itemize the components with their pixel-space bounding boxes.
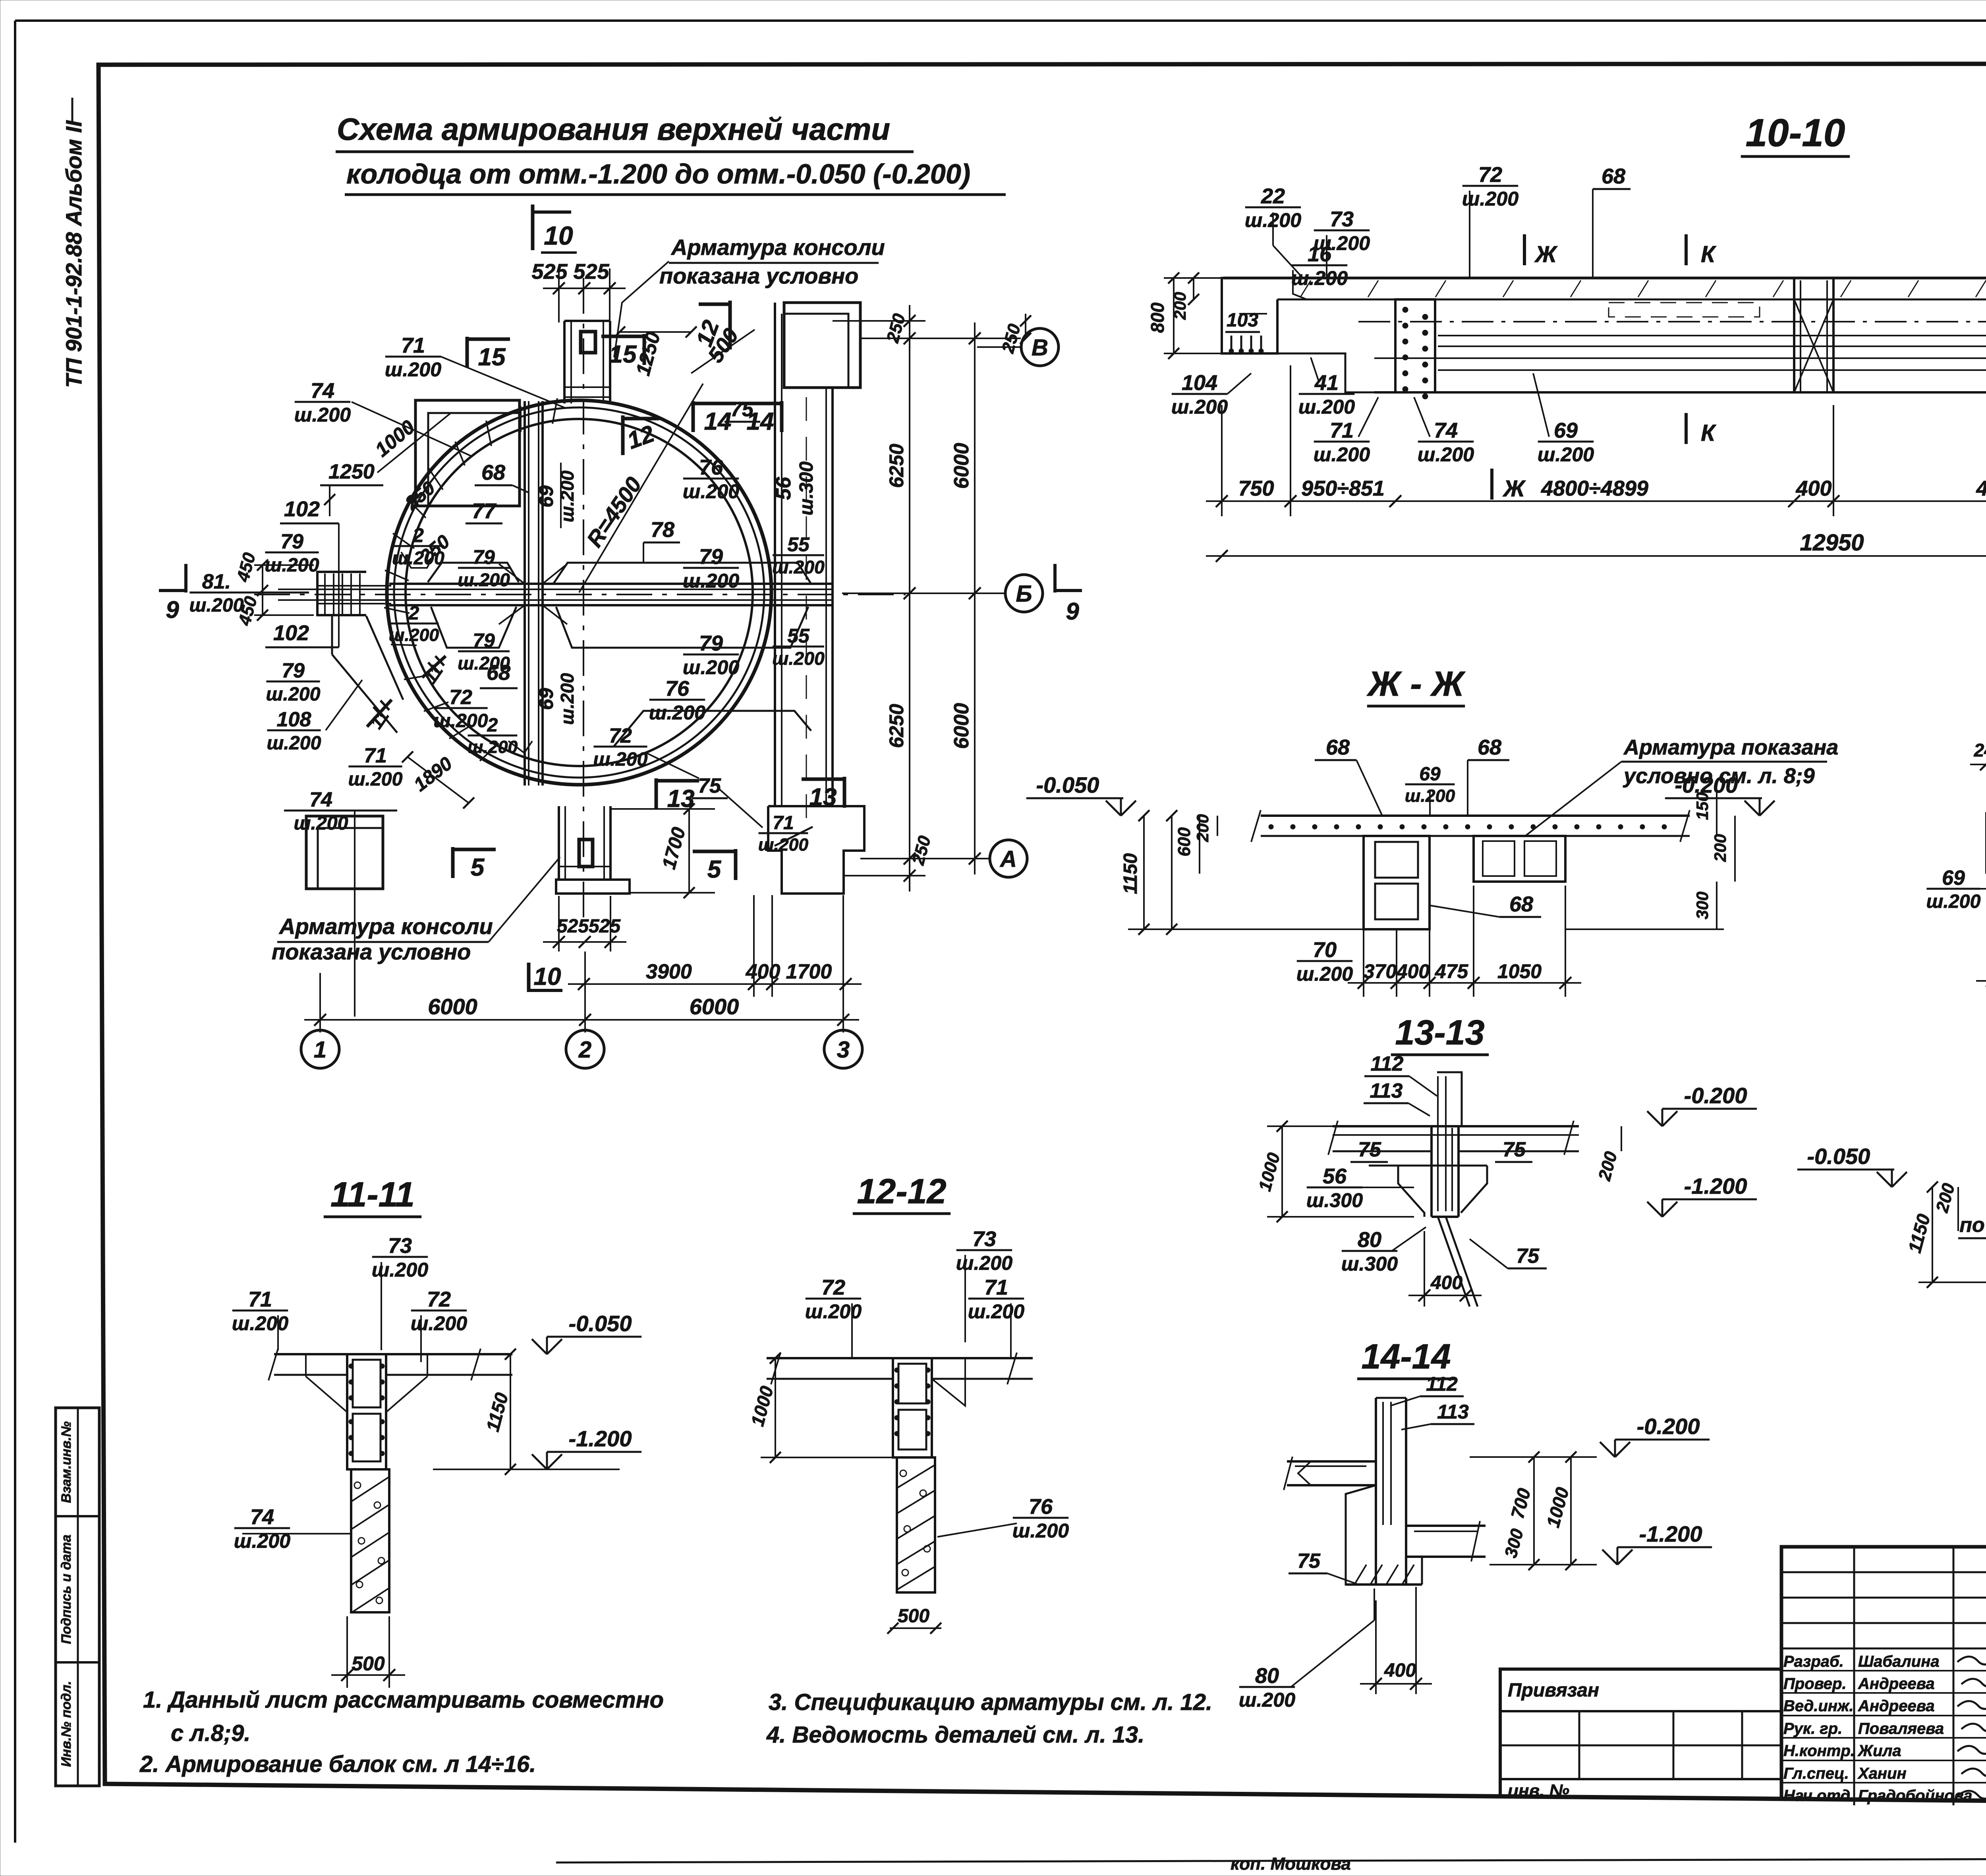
- svg-text:74: 74: [1434, 419, 1458, 442]
- svg-text:ш.300: ш.300: [796, 461, 817, 515]
- svg-text:108: 108: [277, 708, 311, 731]
- dim 1700 rot: [688, 809, 690, 893]
- label 71 ш.200: [968, 1276, 1024, 1323]
- axis circle 3: [824, 1030, 862, 1068]
- plan: bottom console insert: [579, 840, 593, 867]
- label 41 ш.200: [1298, 371, 1355, 418]
- 11-11 dim 500: [331, 1652, 405, 1681]
- svg-text:Андреева: Андреева: [1858, 1675, 1935, 1693]
- svg-text:6250: 6250: [885, 444, 908, 488]
- svg-text:ш.200: ш.200: [593, 749, 647, 770]
- flag К top: [1685, 234, 1688, 265]
- 11-11 pier below: [351, 1469, 389, 1612]
- svg-text:55: 55: [787, 625, 810, 647]
- svg-text:показана условно: показана условно: [659, 263, 858, 288]
- svg-text:ш.200: ш.200: [458, 569, 510, 590]
- label 81. ш.200: [189, 570, 243, 616]
- svg-text:-1.200: -1.200: [1684, 1173, 1747, 1199]
- label 104 ш.200: [1171, 371, 1228, 418]
- label 74 ш.200: [1418, 419, 1474, 466]
- 10-10 beam bottom: [1374, 391, 1986, 394]
- svg-text:75: 75: [1358, 1138, 1381, 1161]
- plan: radius R=4500: [579, 384, 703, 593]
- svg-text:71: 71: [401, 334, 425, 357]
- flag 14T: [739, 401, 782, 435]
- flag 10 top: [531, 205, 535, 250]
- svg-text:ш.200: ш.200: [1538, 444, 1594, 466]
- svg-text:Арматура консоли: Арматура консоли: [670, 235, 885, 260]
- svg-text:77: 77: [472, 499, 497, 523]
- flag 13T: [802, 777, 844, 811]
- label 16 ш.200: [1291, 242, 1348, 290]
- svg-text:400: 400: [1430, 1272, 1462, 1293]
- 13-13 level -1.200: [1647, 1173, 1757, 1217]
- svg-text:Б: Б: [1016, 581, 1032, 607]
- svg-text:ш.200: ш.200: [468, 737, 518, 757]
- 11-11 dim 1150: [510, 1354, 511, 1469]
- 14-14 vertical member: [1375, 1398, 1377, 1585]
- svg-text:Арматура консоли: Арматура консоли: [278, 914, 493, 939]
- svg-text:-1.200: -1.200: [569, 1426, 632, 1451]
- svg-text:ш.200: ш.200: [458, 653, 510, 674]
- svg-text:475: 475: [1435, 960, 1469, 982]
- svg-text:ш.200: ш.200: [294, 404, 351, 426]
- label 69 ш.200: [1405, 764, 1455, 806]
- svg-text:Андреева: Андреева: [1858, 1697, 1935, 1715]
- svg-text:6000: 6000: [950, 703, 973, 749]
- svg-text:69: 69: [535, 485, 557, 508]
- svg-text:12-12: 12-12: [857, 1172, 946, 1211]
- svg-text:Привязан: Привязан: [1508, 1680, 1599, 1701]
- label 72 ш.200: [433, 686, 488, 731]
- svg-text:68: 68: [1326, 735, 1350, 759]
- svg-text:75: 75: [1503, 1138, 1526, 1161]
- svg-text:Ж: Ж: [1502, 476, 1526, 502]
- svg-text:71: 71: [248, 1287, 272, 1311]
- label 69 ш.200: [1926, 867, 1980, 912]
- svg-text:4800÷4899: 4800÷4899: [1541, 477, 1648, 500]
- 10-10 left end block: [1222, 278, 1277, 353]
- svg-text:колодца от отм.-1.200 до о: колодца от отм.-1.200 до отм.-0.050 (-0.…: [346, 158, 970, 189]
- plan right dim chain inner: [885, 305, 916, 892]
- svg-text:71: 71: [773, 813, 794, 834]
- svg-text:9: 9: [166, 596, 179, 623]
- svg-text:79: 79: [699, 545, 723, 569]
- svg-text:74: 74: [250, 1505, 274, 1529]
- svg-text:Шабалина: Шабалина: [1858, 1653, 1940, 1670]
- label 79 ш.200: [265, 530, 319, 576]
- plan: axis 2 vertical dash-dot: [583, 278, 584, 925]
- svg-text:Рук. гр.: Рук. гр.: [1783, 1720, 1842, 1737]
- svg-text:5: 5: [707, 856, 722, 883]
- svg-text:525: 525: [557, 916, 589, 937]
- svg-text:ш.200: ш.200: [772, 557, 825, 577]
- svg-text:ш.200: ш.200: [683, 481, 739, 503]
- svg-text:3: 3: [837, 1037, 850, 1063]
- svg-text:800: 800: [1147, 302, 1168, 333]
- 10-10 column left: [1395, 299, 1435, 392]
- svg-text:ш.200: ш.200: [348, 768, 402, 790]
- svg-text:4800÷4899: 4800÷4899: [1976, 477, 1986, 500]
- svg-text:1150: 1150: [1120, 853, 1141, 894]
- svg-text:76: 76: [1029, 1495, 1053, 1519]
- paper edge bottom: [556, 1858, 1986, 1862]
- 12-12 pier below: [897, 1457, 935, 1592]
- svg-text:80: 80: [1255, 1664, 1279, 1688]
- axis circle V: [1021, 328, 1059, 366]
- 12-12 haunch right: [932, 1358, 965, 1406]
- svg-text:69: 69: [1554, 419, 1578, 442]
- svg-text:А: А: [999, 846, 1017, 872]
- 11-11 level -1.200: [532, 1426, 641, 1469]
- svg-text:-1.200: -1.200: [1639, 1521, 1702, 1546]
- svg-text:Схема армирования верхней ч: Схема армирования верхней части: [337, 112, 890, 147]
- svg-text:ш.200: ш.200: [385, 359, 441, 381]
- 11-11 slab lines: [274, 1353, 512, 1355]
- svg-text:75: 75: [698, 774, 721, 797]
- 10-10 slab soffit: [1277, 299, 1986, 301]
- plan: wall inner face circle: [406, 419, 753, 766]
- 11-11 haunches: [306, 1376, 347, 1412]
- svg-text:1. Данный лист рассматривать: 1. Данный лист рассматривать совместно: [143, 1687, 664, 1713]
- label 71 ш.200: [758, 813, 809, 855]
- section 12-12 title: [853, 1172, 950, 1214]
- flag 10 bottom: [527, 963, 531, 992]
- svg-text:ш.200: ш.200: [1462, 188, 1518, 210]
- 15-15 level -0.050: [1797, 1144, 1907, 1187]
- flag 12T rot: [728, 301, 732, 349]
- svg-text:инв. №: инв. №: [1508, 1781, 1569, 1801]
- svg-text:6000: 6000: [690, 994, 739, 1019]
- svg-text:102: 102: [273, 621, 309, 645]
- label 80 ш.300: [1341, 1228, 1398, 1275]
- label 108 ш.200: [267, 708, 321, 754]
- plan: bottom-left corner pad: [306, 816, 383, 889]
- svg-text:73: 73: [388, 1234, 412, 1258]
- svg-text:ш.200: ш.200: [557, 673, 578, 725]
- svg-text:79: 79: [699, 631, 723, 655]
- 13-13 dim 1000: [1281, 1126, 1283, 1217]
- svg-text:ш.200: ш.200: [1298, 396, 1355, 418]
- svg-text:2: 2: [487, 715, 498, 736]
- label 73 ш.200: [956, 1227, 1012, 1274]
- svg-text:113: 113: [1370, 1079, 1403, 1102]
- label 72 ш.200: [411, 1287, 467, 1335]
- svg-text:950÷851: 950÷851: [1301, 477, 1385, 500]
- svg-text:2: 2: [578, 1037, 591, 1063]
- 12-12 dim 1000: [775, 1358, 776, 1457]
- section 11-11 title: [324, 1175, 421, 1217]
- svg-text:ш.200: ш.200: [683, 656, 739, 679]
- svg-text:78: 78: [651, 518, 674, 542]
- ЖЖ level -0.200: [1665, 772, 1775, 816]
- flag К bottom-left: [1685, 413, 1688, 444]
- ЖЖ central rib: [1364, 836, 1430, 929]
- ЖЖ right lower beam: [1474, 836, 1565, 882]
- section Ж-Ж title: [1366, 664, 1466, 706]
- plan: bottom console cap: [556, 880, 630, 894]
- svg-text:ш.200: ш.200: [1296, 963, 1353, 985]
- svg-text:69: 69: [1419, 764, 1441, 785]
- plan: axis B horizontal dash-dot: [254, 594, 906, 595]
- svg-text:ш.200: ш.200: [1926, 891, 1980, 912]
- label 70 ш.200: [1296, 938, 1353, 985]
- axis circle 1: [301, 1030, 339, 1068]
- svg-text:ш.200: ш.200: [649, 702, 705, 724]
- svg-text:55: 55: [787, 533, 810, 556]
- label 22 ш.200: [1245, 184, 1301, 232]
- svg-text:79: 79: [473, 546, 495, 568]
- title block outer: [1781, 1547, 1986, 1805]
- svg-text:коп. Мошкова: коп. Мошкова: [1231, 1854, 1351, 1874]
- svg-text:ш.200: ш.200: [389, 625, 439, 645]
- flag 9 right: [1053, 564, 1057, 593]
- label 74 sh200 top-left: [294, 379, 351, 426]
- svg-text:1250: 1250: [328, 460, 375, 483]
- svg-text:600: 600: [1175, 827, 1194, 857]
- svg-text:80: 80: [1358, 1228, 1381, 1252]
- КК bottom dims: [1976, 957, 1986, 987]
- svg-text:ш.200: ш.200: [772, 648, 825, 669]
- leader: [441, 357, 566, 408]
- svg-text:ш.200: ш.200: [1012, 1520, 1069, 1542]
- label 2 ш.200: [392, 524, 444, 568]
- svg-text:2: 2: [408, 603, 419, 624]
- margin cells: [56, 1408, 99, 1786]
- svg-text:73: 73: [972, 1227, 996, 1251]
- label 74 ш.200: [294, 788, 348, 834]
- flag T11 a: [422, 656, 446, 677]
- 14-14 block below: [1346, 1485, 1376, 1585]
- svg-text:ш.200: ш.200: [294, 813, 348, 834]
- plan: wall outer inner line: [394, 407, 764, 778]
- svg-text:81.: 81.: [202, 570, 231, 593]
- svg-text:ш.200: ш.200: [392, 548, 444, 568]
- svg-text:41: 41: [1314, 371, 1339, 395]
- svg-text:75: 75: [1516, 1245, 1540, 1268]
- svg-text:500: 500: [898, 1606, 929, 1627]
- svg-text:245: 245: [1974, 740, 1986, 760]
- svg-text:ш.200: ш.200: [1291, 267, 1348, 290]
- label 79 ш.200: [458, 629, 510, 674]
- svg-text:Вед.инж.: Вед.инж.: [1783, 1697, 1854, 1715]
- svg-text:ТП 901-1-92.88 Альбом II: ТП 901-1-92.88 Альбом II: [61, 120, 86, 388]
- svg-text:3. Спецификацию арматуры см.: 3. Спецификацию арматуры см. л. 12.: [769, 1689, 1212, 1715]
- svg-text:ш.200: ш.200: [1239, 1689, 1295, 1711]
- label 73 ш.200: [1314, 207, 1370, 255]
- svg-text:11-11: 11-11: [330, 1175, 415, 1214]
- 15-15 left dims: [1932, 1187, 1933, 1282]
- svg-text:72: 72: [449, 686, 472, 709]
- svg-text:112: 112: [1426, 1373, 1458, 1395]
- 13-13 slab: [1333, 1125, 1579, 1127]
- svg-text:103: 103: [1227, 310, 1258, 331]
- svg-text:-0.200: -0.200: [1684, 1083, 1747, 1108]
- plan: zone 76 upper-right: [667, 467, 798, 492]
- ЖЖ left dims: [1143, 816, 1145, 929]
- plan: zone 79 lower-left trapezoid: [431, 607, 516, 648]
- svg-text:400: 400: [746, 960, 780, 983]
- svg-text:ш.200: ш.200: [232, 1312, 288, 1335]
- plan: wall outer circle: [387, 400, 771, 785]
- plan: top-right corner pad: [784, 303, 860, 388]
- svg-text:102: 102: [284, 497, 320, 521]
- 13-13 level -0.200: [1647, 1083, 1757, 1126]
- plan bottom dim chain 6000 6000: [304, 994, 859, 1026]
- svg-text:79: 79: [282, 659, 305, 682]
- 13-13 trapezoid below: [1398, 1166, 1424, 1217]
- svg-text:-0.200: -0.200: [1637, 1414, 1700, 1439]
- svg-text:4. Ведомость деталей см. л.: 4. Ведомость деталей см. л. 13.: [766, 1722, 1144, 1748]
- svg-text:Провер.: Провер.: [1783, 1675, 1847, 1693]
- svg-text:Инв.№ подл.: Инв.№ подл.: [59, 1681, 74, 1767]
- paper edge left: [14, 21, 16, 1843]
- svg-text:15: 15: [609, 341, 637, 368]
- plan bottom dim chain 3900/400/1700: [568, 960, 862, 990]
- svg-text:56: 56: [772, 477, 795, 500]
- svg-text:74: 74: [309, 788, 332, 811]
- svg-text:68: 68: [1602, 164, 1625, 188]
- label 76 ш.200: [649, 677, 705, 724]
- 14-14 right dims 700 1000 300: [1533, 1457, 1535, 1565]
- svg-text:ш.200: ш.200: [683, 570, 739, 592]
- label 69 ш.200: [1538, 419, 1594, 466]
- label 79 ш.200: [266, 659, 320, 705]
- svg-text:12950: 12950: [1800, 530, 1864, 556]
- svg-text:10: 10: [534, 963, 561, 990]
- plan: bottom console: [558, 806, 560, 880]
- flag 9 left: [184, 564, 187, 593]
- label 76 ш.200: [1012, 1495, 1069, 1542]
- label 55 ш.200: [772, 625, 825, 669]
- svg-text:370: 370: [1364, 960, 1397, 982]
- label 2 ш.200: [468, 715, 518, 757]
- label 72 ш.200: [593, 724, 647, 770]
- svg-text:-0.050: -0.050: [569, 1311, 632, 1336]
- 14-14 level -0.200: [1600, 1414, 1710, 1457]
- svg-text:-0.050: -0.050: [1036, 772, 1099, 797]
- svg-text:400: 400: [1396, 960, 1430, 982]
- svg-text:ш.200: ш.200: [266, 683, 320, 705]
- label 79 ш.200: [683, 545, 739, 592]
- label 72 ш.200: [1462, 163, 1518, 210]
- svg-text:13: 13: [809, 784, 837, 811]
- svg-text:1050: 1050: [1497, 960, 1542, 982]
- plan: zone 79 lower-right trapezoid: [556, 607, 808, 648]
- svg-text:ш.200: ш.200: [411, 1312, 467, 1335]
- svg-text:2. Армирование балок см. л: 2. Армирование балок см. л 14÷16.: [139, 1751, 536, 1777]
- svg-text:200: 200: [1193, 814, 1212, 842]
- svg-text:400: 400: [1795, 477, 1831, 500]
- svg-text:ш.200: ш.200: [1314, 444, 1370, 466]
- plan: zone 76 lower-right outline: [614, 711, 811, 747]
- svg-text:74: 74: [311, 379, 334, 403]
- svg-text:1: 1: [314, 1037, 326, 1063]
- svg-text:76: 76: [699, 455, 723, 479]
- 10-10 rebar lines: [1438, 335, 1986, 336]
- ЖЖ level -0.050: [1026, 772, 1136, 816]
- 11-11 column: [347, 1354, 386, 1469]
- svg-text:ш.200: ш.200: [1418, 444, 1474, 466]
- svg-text:15: 15: [478, 344, 506, 371]
- svg-text:9: 9: [1066, 598, 1079, 625]
- svg-text:13-13: 13-13: [1395, 1013, 1484, 1052]
- svg-text:Ж: Ж: [1534, 241, 1558, 267]
- flag Ж top-left: [1523, 234, 1526, 265]
- svg-text:79: 79: [473, 629, 495, 652]
- plan: top console: [563, 321, 566, 403]
- svg-text:6250: 6250: [885, 704, 908, 748]
- svg-text:Подпись и дата: Подпись и дата: [59, 1534, 74, 1644]
- svg-text:В: В: [1032, 335, 1048, 361]
- label 73 ш.200: [372, 1234, 428, 1281]
- svg-text:150: 150: [1693, 792, 1712, 820]
- flag T14: [693, 401, 736, 435]
- svg-text:69: 69: [1942, 867, 1965, 890]
- svg-text:ш.200: ш.200: [372, 1259, 428, 1281]
- svg-text:ш.200: ш.200: [968, 1301, 1024, 1323]
- flag T12: [621, 415, 625, 455]
- svg-text:71: 71: [1330, 419, 1354, 442]
- svg-text:56: 56: [1323, 1164, 1347, 1188]
- label 71 ш.200: [348, 744, 402, 790]
- plan: vertical beam: [524, 401, 526, 786]
- svg-text:Ж - Ж: Ж - Ж: [1366, 664, 1466, 703]
- svg-text:К: К: [1701, 420, 1716, 446]
- plan: horizontal beam outline: [389, 583, 832, 585]
- label 80 ш.200: [1239, 1664, 1295, 1711]
- ЖЖ slab: [1261, 814, 1690, 817]
- svg-text:ш.200: ш.200: [189, 594, 243, 616]
- svg-text:14: 14: [747, 408, 774, 435]
- svg-text:300: 300: [1693, 892, 1712, 919]
- flag 5T: [693, 849, 736, 883]
- svg-text:69: 69: [535, 688, 557, 710]
- svg-text:72: 72: [427, 1287, 451, 1311]
- 10-10 slab top line: [1223, 277, 1986, 280]
- 14-14 right slab lower: [1406, 1525, 1486, 1527]
- plan: zone 79 upper-left trapezoid: [428, 563, 519, 582]
- svg-text:показана условно: показана условно: [272, 939, 471, 964]
- label 71 sh200 top-left: [385, 334, 441, 381]
- svg-text:К: К: [1701, 241, 1716, 267]
- flag 15T: [601, 334, 644, 368]
- svg-text:-0.050: -0.050: [1807, 1144, 1870, 1169]
- label 72 ш.200: [805, 1276, 862, 1323]
- svg-text:Гл.спец.: Гл.спец.: [1783, 1765, 1849, 1782]
- paper edge top: [15, 19, 1986, 22]
- plan: left wedge below protrusion: [331, 615, 333, 654]
- plan: left beam protrusion: [317, 572, 366, 615]
- 14-14 level -1.200: [1602, 1521, 1712, 1565]
- flag T11 b: [367, 700, 392, 727]
- svg-text:16: 16: [1308, 242, 1332, 266]
- svg-text:70: 70: [1313, 938, 1337, 962]
- svg-text:по в: по в: [1959, 1214, 1986, 1237]
- axis circle A: [990, 840, 1027, 877]
- svg-text:Н.контр.: Н.контр.: [1783, 1742, 1855, 1760]
- 12-12 column: [893, 1358, 932, 1457]
- svg-text:72: 72: [1478, 163, 1502, 187]
- 11-11 level -0.050: [532, 1311, 641, 1354]
- svg-text:79: 79: [280, 530, 303, 553]
- svg-text:5: 5: [471, 854, 485, 881]
- svg-text:400: 400: [1384, 1660, 1416, 1681]
- label 74 ш.200: [234, 1505, 290, 1552]
- svg-text:ш.200: ш.200: [557, 470, 578, 522]
- svg-text:22: 22: [1261, 184, 1285, 208]
- svg-text:Нач.отд.: Нач.отд.: [1783, 1787, 1855, 1805]
